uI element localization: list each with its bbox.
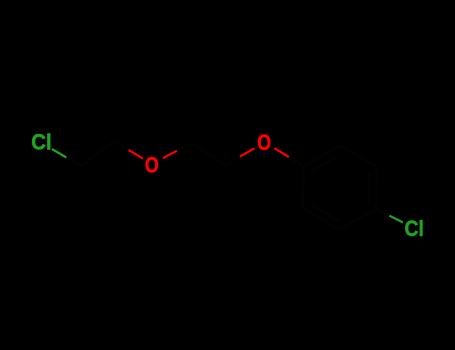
benzene ring bond R5-R6 inner double line (310, 204, 340, 222)
svg-text:Cl: Cl (31, 130, 51, 155)
bond C4-O2 red half (240, 148, 255, 156)
bond Cl1-C1 green half (52, 149, 66, 158)
bond C1-C2 (81, 141, 114, 166)
bond C4-O2 dark half (225, 157, 240, 165)
bond O2-ring dark half (289, 157, 304, 166)
bond C2-O1 dark half (114, 141, 129, 150)
bond O1-C3 red half (163, 151, 177, 159)
benzene ring bond R4-R5 (339, 209, 376, 230)
bond C2-O1 red half (129, 150, 143, 159)
svg-text:Cl: Cl (405, 216, 424, 241)
benzene ring bond R5-R6 (303, 208, 339, 230)
bond R4-Cl2 green half (389, 216, 403, 223)
benzene ring bond R1-R2 inner double line (311, 157, 338, 172)
benzene ring bond R6-R1 (302, 166, 305, 208)
bond Cl1-C1 dark half (66, 158, 81, 167)
svg-text:O: O (145, 152, 159, 177)
svg-text:O: O (257, 130, 271, 155)
benzene ring bond R3-R4 inner double line (368, 173, 371, 204)
bond C3-C4 (191, 143, 225, 165)
bond R4-Cl2 dark half (376, 209, 389, 216)
benzene ring bond R3-R4 (375, 167, 378, 209)
bond O1-C3 dark half (177, 143, 191, 151)
benzene ring bond R2-R3 (340, 145, 376, 167)
benzene ring bond R1-R2 (304, 145, 341, 166)
bond O2-ring red half (274, 148, 289, 157)
